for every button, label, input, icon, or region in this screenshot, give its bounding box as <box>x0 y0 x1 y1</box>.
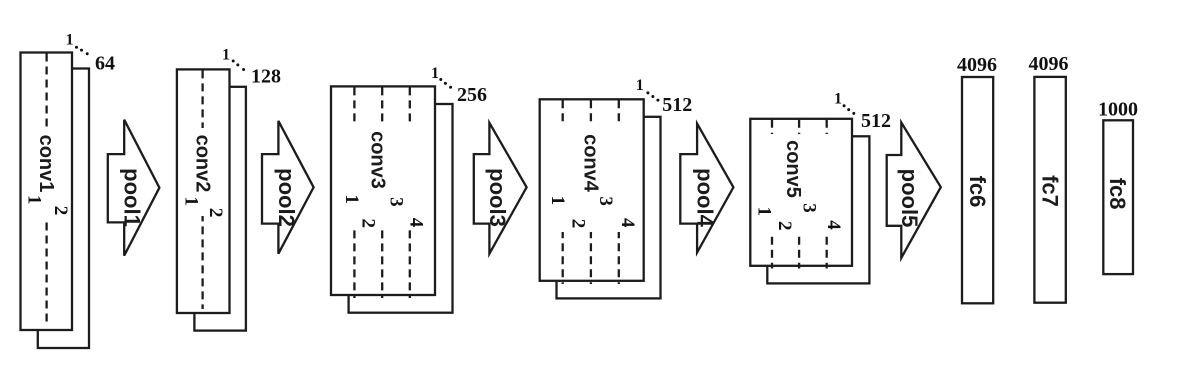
svg-text:1: 1 <box>341 195 362 205</box>
svg-text:3: 3 <box>386 197 407 207</box>
pool5 arrow <box>887 123 941 258</box>
svg-text:4: 4 <box>405 218 426 228</box>
conv1 dotted leader <box>75 46 89 56</box>
svg-text:64: 64 <box>95 53 115 75</box>
svg-text:fc7: fc7 <box>1037 175 1062 207</box>
fc8 layer rect <box>1103 120 1133 274</box>
svg-text:3: 3 <box>799 203 820 213</box>
svg-text:2: 2 <box>774 221 795 231</box>
conv3 block back layer <box>349 104 453 313</box>
svg-text:2: 2 <box>205 208 226 218</box>
pool1 arrow <box>108 120 160 256</box>
svg-text:pool2: pool2 <box>274 168 299 227</box>
svg-text:1: 1 <box>754 207 775 217</box>
svg-text:2: 2 <box>50 206 71 216</box>
svg-text:pool5: pool5 <box>897 169 922 228</box>
conv2 block front layer <box>177 69 230 313</box>
svg-text:1: 1 <box>222 47 230 64</box>
svg-text:conv1: conv1 <box>35 135 57 193</box>
conv5 dotted leader <box>843 104 856 115</box>
svg-text:4096: 4096 <box>1029 53 1069 75</box>
conv3 block front layer <box>331 86 435 295</box>
pool4 arrow <box>680 124 733 253</box>
conv2 dashed separator <box>201 70 203 309</box>
conv3 dashed separators <box>353 87 355 298</box>
conv5 block back layer <box>767 136 869 283</box>
svg-text:1: 1 <box>24 195 45 205</box>
svg-text:512: 512 <box>861 110 891 132</box>
fc6 layer rect <box>962 77 993 303</box>
svg-text:256: 256 <box>457 84 487 106</box>
svg-text:fc8: fc8 <box>1105 178 1130 210</box>
pool3 arrow <box>474 123 527 254</box>
conv1 dashed separator <box>45 54 47 325</box>
svg-text:1: 1 <box>66 32 74 49</box>
conv3 dotted leader <box>439 78 452 89</box>
svg-text:1: 1 <box>834 91 842 108</box>
svg-text:4: 4 <box>823 220 844 230</box>
conv2 block back layer <box>194 87 246 331</box>
svg-text:2: 2 <box>568 219 589 229</box>
svg-text:fc6: fc6 <box>965 176 990 208</box>
svg-text:1000: 1000 <box>1098 99 1138 121</box>
svg-text:128: 128 <box>251 66 281 88</box>
conv4 block back layer <box>557 117 661 299</box>
pool2 arrow <box>262 121 314 254</box>
conv1 block back layer <box>38 69 89 349</box>
svg-text:conv2: conv2 <box>192 135 214 193</box>
svg-text:pool1: pool1 <box>120 168 145 227</box>
svg-text:1: 1 <box>180 196 201 206</box>
svg-text:1: 1 <box>431 65 439 82</box>
svg-text:2: 2 <box>358 219 379 229</box>
conv1 block front layer <box>21 53 73 331</box>
conv4 dotted leader <box>646 91 659 101</box>
svg-text:512: 512 <box>662 94 692 116</box>
svg-text:pool4: pool4 <box>693 168 718 227</box>
svg-text:4: 4 <box>617 218 638 228</box>
fc7 layer rect <box>1034 77 1065 303</box>
conv4 block front layer <box>540 99 644 280</box>
conv4 dashed separators <box>562 100 564 284</box>
svg-text:conv4: conv4 <box>580 134 602 193</box>
svg-text:conv5: conv5 <box>782 140 804 198</box>
conv5 block front layer <box>750 119 852 266</box>
svg-text:conv3: conv3 <box>366 131 388 189</box>
svg-text:1: 1 <box>547 196 568 206</box>
svg-text:pool3: pool3 <box>485 168 510 227</box>
svg-text:1: 1 <box>636 77 644 94</box>
conv2 dotted leader <box>232 60 245 72</box>
conv5 dashed separators <box>771 120 773 269</box>
svg-text:3: 3 <box>595 196 616 206</box>
svg-text:4096: 4096 <box>957 54 997 76</box>
